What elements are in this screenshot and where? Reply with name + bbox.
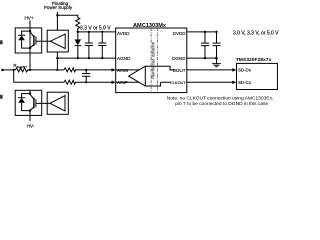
svg-text:DOUT: DOUT bbox=[173, 68, 186, 73]
svg-text:RSHUNT: RSHUNT bbox=[13, 63, 27, 69]
svg-text:Note: no CLKOUT connection usi: Note: no CLKOUT connection using AMC1303… bbox=[167, 96, 274, 102]
svg-text:AINN: AINN bbox=[117, 68, 128, 73]
svg-text:3.0 V, 3.3 V, or 5.0 V: 3.0 V, 3.3 V, or 5.0 V bbox=[233, 31, 279, 37]
svg-text:pin 7 to be connected to DGND: pin 7 to be connected to DGND in this ca… bbox=[175, 101, 268, 107]
svg-text:HV+: HV+ bbox=[24, 16, 33, 21]
svg-text:DVDD: DVDD bbox=[173, 31, 187, 36]
svg-text:AMC1303Mx: AMC1303Mx bbox=[133, 23, 167, 29]
svg-text:SD-Cx: SD-Cx bbox=[238, 80, 252, 85]
svg-text:AGND: AGND bbox=[117, 56, 131, 61]
svg-text:CLKOUT: CLKOUT bbox=[170, 81, 186, 85]
svg-text:TMS320F28x7x: TMS320F28x7x bbox=[236, 57, 272, 63]
svg-text:Power Supply: Power Supply bbox=[44, 5, 73, 10]
svg-text:SD-Dx: SD-Dx bbox=[238, 68, 252, 73]
svg-text:3.3 V or 5.0 V: 3.3 V or 5.0 V bbox=[80, 25, 111, 31]
svg-text:Reinforced Isolation: Reinforced Isolation bbox=[151, 41, 156, 79]
svg-text:DGND: DGND bbox=[172, 56, 186, 61]
svg-text:HV-: HV- bbox=[27, 124, 35, 129]
svg-text:AINP: AINP bbox=[117, 80, 128, 85]
svg-text:AVDD: AVDD bbox=[117, 31, 130, 36]
